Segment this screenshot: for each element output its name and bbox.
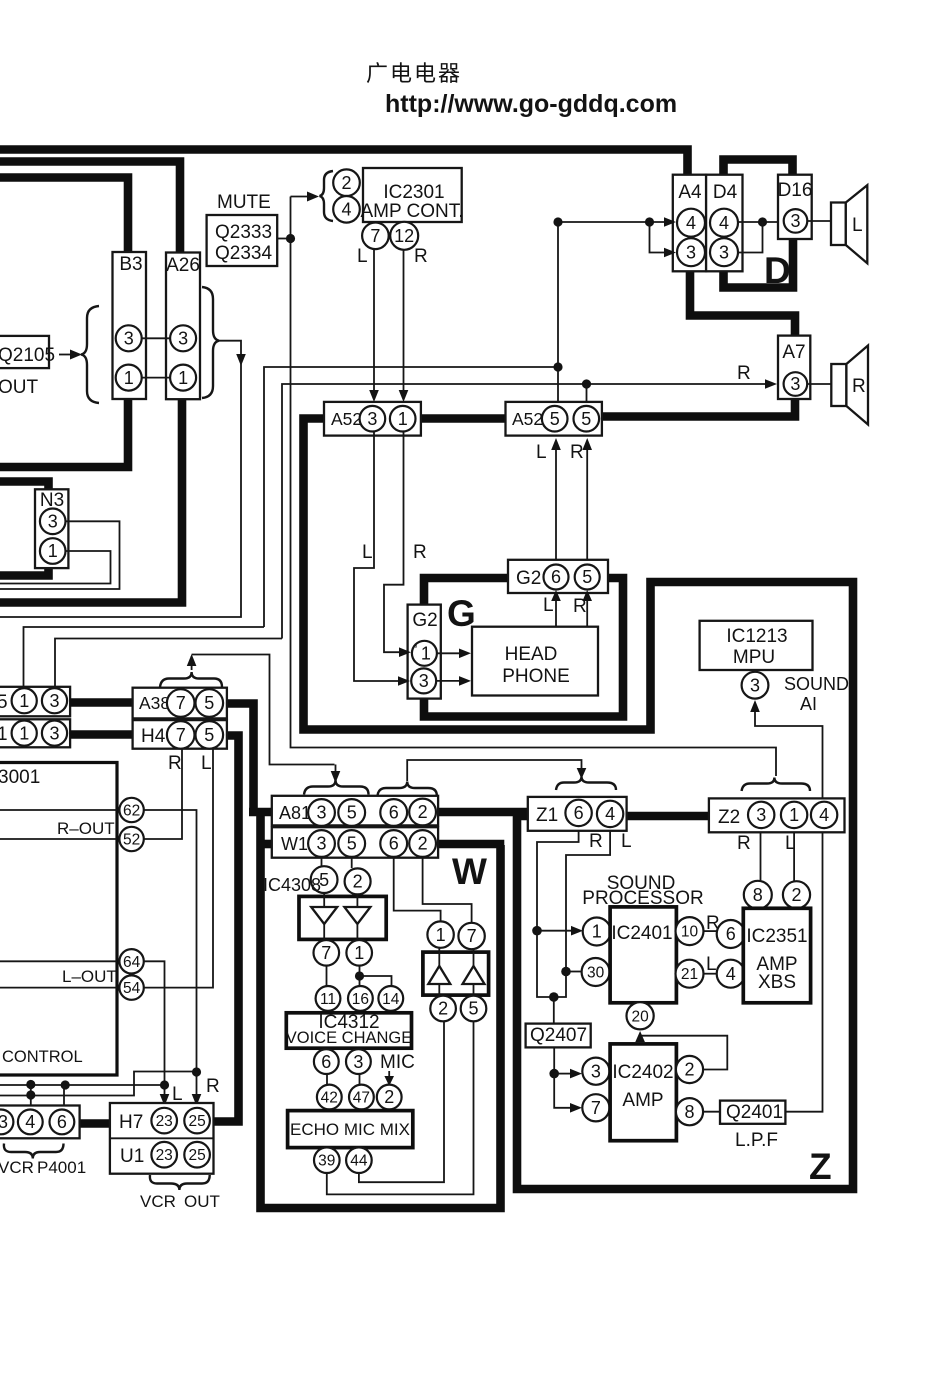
- wire IC2301-7 to A52 pin3: [369, 250, 379, 403]
- svg-text:4: 4: [819, 805, 829, 825]
- pin ampW-1: [427, 921, 453, 947]
- svg-text:G2: G2: [412, 610, 437, 631]
- wire L bus to left connector row1 pin1: [24, 627, 265, 687]
- svg-text:L: L: [357, 246, 368, 267]
- svg-text:8: 8: [684, 1102, 694, 1122]
- svg-text:3: 3: [316, 803, 326, 823]
- connector Z2: [709, 798, 845, 832]
- svg-text:AMP: AMP: [622, 1090, 663, 1111]
- svg-text:R: R: [168, 753, 182, 774]
- svg-text:IC4308: IC4308: [263, 875, 321, 895]
- svg-text:L: L: [621, 831, 632, 852]
- connector row A1: [0, 719, 70, 747]
- svg-text:4: 4: [719, 213, 729, 233]
- svg-text:23: 23: [156, 1113, 173, 1130]
- svg-text:2: 2: [418, 834, 428, 854]
- pin VCR-4: [18, 1110, 43, 1135]
- pin IC4308-1: [346, 940, 372, 966]
- wire arrow down into A81 brace: [331, 765, 341, 784]
- wire ECHO-39 to ampW-5: [327, 1022, 474, 1194]
- pin U1-23: [151, 1142, 177, 1168]
- block IC1213 MPU: [700, 621, 813, 670]
- svg-text:Z2: Z2: [718, 807, 740, 828]
- label L under Z2: [785, 833, 796, 854]
- wire Q2407 to IC2402 junction: [553, 1047, 555, 1073]
- svg-text:4: 4: [726, 964, 736, 984]
- op-amp block IC2301 AMP CONT.: [360, 168, 463, 222]
- box Q2105: [0, 336, 55, 368]
- wire pin54 to H4-5 (L): [144, 749, 213, 988]
- amp triangle left (up): [428, 948, 450, 996]
- wire down to VCR pin6: [63, 1085, 65, 1110]
- connector B3: [113, 252, 147, 399]
- svg-text:SOUND: SOUND: [784, 674, 849, 694]
- pin IC2401-30: [582, 958, 610, 986]
- wire into IC2401-30: [566, 971, 582, 973]
- svg-text:10: 10: [681, 924, 699, 941]
- wire Q2407 line down: [553, 997, 555, 1024]
- label R near A7: [737, 363, 751, 384]
- pin IC2301-12: [390, 222, 418, 250]
- wire thick row1 to A38: [70, 698, 133, 707]
- pin A38-7: [167, 689, 195, 717]
- connector A7: [778, 336, 810, 399]
- svg-text:21: 21: [681, 966, 698, 983]
- node junction 62-line: [192, 1067, 201, 1076]
- label R between 10 and 6: [706, 913, 720, 934]
- wire L line (IC2301 L to A4 riser and bus): [264, 367, 558, 627]
- svg-text:5: 5: [468, 999, 478, 1019]
- pin IC1213-3: [742, 672, 769, 699]
- pin A52R-5L: [542, 406, 568, 432]
- svg-text:5: 5: [204, 725, 214, 745]
- node junction IC2402-3: [549, 1069, 559, 1079]
- wire branch to IC4312-14: [360, 976, 392, 986]
- connector H7/U1 box: [110, 1103, 214, 1174]
- buffer triangle left in IC4308: [311, 893, 337, 940]
- wire thick cable to A26 top riser: [0, 162, 180, 254]
- svg-text:1: 1: [0, 724, 8, 745]
- svg-text:A26: A26: [166, 255, 200, 276]
- svg-text:L: L: [706, 954, 717, 975]
- svg-text:R: R: [206, 1076, 220, 1097]
- svg-text:7: 7: [176, 693, 186, 713]
- wire A26 brace to down bus: [219, 341, 246, 366]
- node bus dot row1: [26, 1080, 35, 1089]
- node junction D4 side: [758, 217, 767, 226]
- wire 21 to 4: [704, 973, 718, 975]
- block ECHO MIC MIX: [288, 1111, 413, 1148]
- svg-text:http://www.go-gddq.com: http://www.go-gddq.com: [385, 90, 677, 118]
- label IC4308: [263, 875, 321, 895]
- svg-text:2: 2: [438, 999, 448, 1019]
- svg-text:3: 3: [48, 512, 58, 532]
- block IC2402 AMP: [610, 1044, 676, 1141]
- wire thick W1 right to W box right edge: [438, 840, 504, 849]
- svg-text:3: 3: [790, 211, 800, 231]
- svg-text:A52: A52: [331, 409, 362, 429]
- pin IC2351-4: [717, 960, 745, 988]
- pin row2-3: [42, 721, 67, 746]
- svg-text:R: R: [413, 542, 427, 563]
- label MIC: [380, 1052, 415, 1073]
- wire N3-3 to left edge bus: [0, 521, 120, 589]
- svg-text:L: L: [543, 595, 554, 616]
- svg-text:D4: D4: [713, 182, 738, 203]
- pin VCR-3: [0, 1110, 13, 1135]
- brace over A81 6,2: [378, 782, 437, 796]
- pin W1-5: [338, 830, 365, 857]
- pin row1-1: [12, 688, 37, 713]
- wire A38 brace up-arrow to A81 feed: [187, 654, 335, 765]
- wire arrow into IC2401-1: [537, 926, 583, 936]
- svg-text:A38: A38: [139, 693, 170, 713]
- wire A26-brace bus down to left edge (y617): [0, 360, 241, 617]
- node junction IC2401-30: [561, 967, 571, 977]
- svg-text:Q2401: Q2401: [726, 1102, 783, 1123]
- svg-text:25: 25: [188, 1147, 205, 1164]
- wire Q2401 to Z2-4: [785, 833, 822, 1112]
- label OUT: [0, 377, 39, 398]
- wire R junction down to A52R-5R: [586, 384, 588, 402]
- svg-text:6: 6: [574, 803, 584, 823]
- wire arrow into IC2402-3: [554, 1069, 582, 1079]
- wire pin62 down to H7-25: [144, 810, 197, 1072]
- svg-text:4: 4: [686, 213, 696, 233]
- label L under H4-5: [201, 753, 212, 774]
- svg-text:4: 4: [341, 200, 351, 220]
- svg-text:P4001: P4001: [37, 1158, 86, 1177]
- brace under U1 pins: [150, 1175, 210, 1190]
- svg-text:4: 4: [25, 1112, 35, 1132]
- svg-text:5: 5: [581, 409, 591, 429]
- pin A52R-5R: [574, 406, 600, 432]
- pin row line 52: [0, 838, 117, 840]
- svg-text:5: 5: [582, 567, 592, 587]
- svg-text:W: W: [452, 851, 487, 892]
- svg-text:25: 25: [188, 1113, 205, 1130]
- wire thick cable to B3 top riser (tuner box top edge): [0, 178, 128, 254]
- label R under H4-7: [168, 753, 182, 774]
- pin H7-25: [184, 1108, 210, 1134]
- pin 64: [119, 949, 143, 973]
- label SOUND AI: [784, 674, 849, 714]
- svg-text:MIC: MIC: [380, 1052, 415, 1073]
- wire thick N3 top feed: [0, 482, 49, 491]
- node junction 64-line: [160, 1080, 169, 1089]
- wire R line (to A7): [282, 379, 777, 638]
- svg-text:3: 3: [750, 675, 760, 695]
- wire IC2402-8 to Q2401: [703, 1111, 720, 1113]
- svg-text:7: 7: [176, 725, 186, 745]
- label R under G2h: [573, 596, 587, 617]
- pin G2v-3: [411, 668, 436, 693]
- svg-text:20: 20: [631, 1008, 649, 1025]
- wire R bus to left connector row1 pin3: [55, 639, 282, 688]
- svg-text:A81: A81: [279, 803, 311, 823]
- label R under Z1: [589, 831, 603, 852]
- svg-text:2: 2: [791, 885, 801, 905]
- wire Z2-4 to IC1213-3: [750, 700, 822, 798]
- pin IC2401-1: [583, 918, 611, 946]
- pin N3-3: [40, 509, 66, 535]
- pin 54: [119, 975, 143, 999]
- svg-text:W1: W1: [281, 834, 308, 854]
- label L under pin7: [357, 246, 368, 267]
- pin IC2301-2: [333, 169, 360, 196]
- svg-text:12: 12: [394, 226, 414, 246]
- wire Q2105 arrow to brace: [59, 350, 82, 360]
- wire Z2-3 to IC2351-8: [760, 833, 762, 882]
- wire thick W1 left stub: [258, 840, 272, 849]
- svg-text:6: 6: [389, 834, 399, 854]
- wire IC2301-12 to A52 pin1: [399, 250, 409, 403]
- wire down and arrow into IC2402-7: [554, 1074, 582, 1113]
- node bus dot row2: [26, 1090, 35, 1099]
- label CONTROL: [2, 1048, 83, 1066]
- label W bold: [452, 851, 487, 892]
- svg-text:2: 2: [384, 1087, 394, 1107]
- connector G2 horizontal: [508, 560, 608, 593]
- wire thick D4 bottom to D16 bottom: [724, 239, 794, 288]
- box Q2333 Q2334: [207, 215, 278, 266]
- block IC2351 AMP XBS: [743, 908, 810, 1003]
- wire thick A81 to Z1: [437, 808, 529, 817]
- block HEAD PHONE: [472, 627, 598, 696]
- wire MIC arrow to pin2: [384, 1071, 394, 1086]
- pin A26-1: [170, 365, 196, 391]
- pin VCR-6: [50, 1110, 75, 1135]
- node junction IC2401-1: [532, 926, 542, 936]
- svg-text:3: 3: [419, 671, 429, 691]
- svg-text:3: 3: [719, 242, 729, 262]
- label L.P.F: [735, 1130, 778, 1151]
- pin IC2351-8: [744, 881, 772, 909]
- pin A81-6: [380, 799, 407, 826]
- svg-text:3: 3: [756, 805, 766, 825]
- svg-text:5: 5: [347, 834, 357, 854]
- svg-text:OUT: OUT: [184, 1192, 220, 1211]
- svg-text:52: 52: [123, 832, 140, 849]
- pin 62: [119, 798, 143, 822]
- transistor Q2407: [526, 1024, 591, 1048]
- pin A52L-1: [390, 406, 416, 432]
- pin A81-5: [338, 799, 365, 826]
- wire D4-4 to D16: [739, 221, 779, 223]
- svg-text:1: 1: [124, 368, 134, 388]
- pin IC4308-7: [314, 940, 340, 966]
- wire VCR bus lower: [0, 1072, 194, 1096]
- svg-text:62: 62: [123, 803, 140, 820]
- wire IC4308-1 to IC4312-16: [359, 966, 361, 986]
- svg-text:5: 5: [550, 409, 560, 429]
- pin W1-2: [409, 830, 436, 857]
- svg-text:IC1213: IC1213: [726, 626, 787, 647]
- svg-text:A52: A52: [512, 409, 543, 429]
- svg-text:5: 5: [347, 803, 357, 823]
- label R under A52R: [570, 442, 584, 463]
- brace under VCR connector: [4, 1144, 64, 1159]
- wire mute vertical line to Z braces feed: [291, 197, 777, 777]
- svg-text:47: 47: [353, 1090, 370, 1107]
- connector A4: [673, 175, 706, 272]
- wire A52L-3 L to G2v-3: [354, 432, 410, 686]
- svg-text:IC2351: IC2351: [746, 926, 807, 947]
- pin A7-3: [784, 372, 808, 396]
- block 3001 outline: [0, 763, 117, 1076]
- svg-text:8: 8: [753, 885, 763, 905]
- svg-text:R: R: [852, 376, 866, 397]
- svg-text:30: 30: [587, 965, 605, 982]
- pin G2h-6: [544, 565, 569, 590]
- wire pin52 to H4-7 (R): [144, 749, 182, 839]
- wire W1-6 to ampW-1: [394, 858, 441, 921]
- wire G2v-1 to headphone: [437, 649, 471, 659]
- connector A52 right: [506, 402, 602, 436]
- filter Q2401 L.P.F: [720, 1101, 785, 1124]
- wire branch to A4-3: [650, 222, 677, 257]
- svg-text:G2: G2: [516, 568, 541, 589]
- wire G2v-3 to headphone: [437, 676, 472, 686]
- wire thick A38 to A81 riser: [227, 704, 254, 813]
- connector W1: [272, 827, 438, 858]
- pin G2v-1: [412, 641, 437, 666]
- pin Z1-6: [565, 800, 591, 826]
- svg-text:IC2301: IC2301: [383, 182, 444, 203]
- pin row line 54: [0, 987, 117, 989]
- wire Z2-1 to IC2351-2: [793, 833, 795, 882]
- svg-text:6: 6: [57, 1112, 67, 1132]
- svg-text:5: 5: [0, 692, 8, 713]
- pin A4-4: [677, 209, 705, 237]
- wire VCR bus upper: [0, 1084, 165, 1086]
- wire Q2333 to mute line: [278, 238, 288, 240]
- label MUTE: [217, 192, 271, 213]
- pin ampW-5: [461, 996, 487, 1022]
- pin row line 62: [0, 809, 117, 811]
- svg-text:42: 42: [321, 1090, 338, 1107]
- pin IC2401-20: [627, 1002, 654, 1029]
- svg-text:16: 16: [352, 991, 369, 1008]
- svg-text:4: 4: [605, 804, 615, 824]
- wire thick A7 bottom to A52 right connector: [600, 399, 795, 417]
- svg-text:D: D: [764, 250, 791, 291]
- pin IC2402-7: [582, 1094, 609, 1121]
- wire IC2402-2 loop up to pin 20: [635, 1031, 727, 1070]
- brace over Z2: [742, 778, 810, 792]
- svg-text:R: R: [414, 246, 428, 267]
- wire Z1-4 down to IC2401-30 junction: [566, 831, 610, 972]
- connector A52 left: [324, 402, 421, 436]
- pin A4-3: [677, 238, 705, 266]
- svg-text:VCR: VCR: [140, 1192, 176, 1211]
- svg-text:L: L: [362, 542, 373, 563]
- connector G2 vertical: [408, 605, 441, 699]
- svg-text:H7: H7: [119, 1112, 143, 1133]
- svg-text:R–OUT: R–OUT: [57, 819, 115, 838]
- svg-text:MPU: MPU: [733, 647, 775, 668]
- wire ECHO-44 to ampW-2: [359, 1022, 444, 1182]
- pin N3-1: [40, 538, 66, 564]
- pin G2h-5: [575, 565, 600, 590]
- speaker L: [831, 185, 867, 263]
- svg-text:Z: Z: [809, 1146, 832, 1187]
- node bus dot pin6: [61, 1080, 70, 1089]
- pin IC4312-14: [378, 986, 403, 1011]
- label R-OUT: [57, 819, 115, 838]
- pin IC4308-5: [311, 866, 338, 893]
- svg-text:VCR: VCR: [0, 1158, 34, 1177]
- connector VCR P4001: [0, 1106, 80, 1139]
- node L junction: [553, 362, 562, 371]
- pin D16-3: [784, 209, 808, 233]
- block IC4308 amps: [299, 896, 386, 939]
- svg-text:7: 7: [467, 926, 477, 946]
- svg-text:OUT: OUT: [0, 377, 39, 398]
- wire headphone up to G2h-5: [582, 590, 592, 626]
- wire thick A81 stub: [249, 808, 272, 817]
- label L between 21 and 4: [706, 954, 717, 975]
- svg-text:7: 7: [321, 943, 331, 963]
- svg-text:Q2407: Q2407: [530, 1025, 587, 1046]
- pin row line 64: [0, 960, 117, 962]
- block W amp box: [423, 952, 489, 995]
- svg-text:A4: A4: [678, 182, 702, 203]
- wire thick Z1 to Z2: [626, 812, 711, 821]
- title chinese text: [366, 61, 462, 86]
- svg-text:64: 64: [123, 954, 141, 971]
- brace over A38 pins: [160, 672, 222, 687]
- svg-text:Q2334: Q2334: [215, 243, 272, 264]
- svg-text:ECHO MIC MIX: ECHO MIC MIX: [290, 1120, 410, 1139]
- svg-text:H4: H4: [141, 726, 166, 747]
- pin W1-3: [308, 830, 335, 857]
- svg-text:2: 2: [684, 1060, 694, 1080]
- label L on headphone L wire: [362, 542, 373, 563]
- wire down to VCR pin4: [30, 1085, 32, 1111]
- svg-text:7: 7: [370, 226, 380, 246]
- wire thick row2 to H4: [70, 730, 133, 739]
- brace IC2301 pins 2,4: [320, 171, 334, 221]
- svg-text:1: 1: [19, 691, 29, 711]
- pin IC2401-10: [676, 917, 704, 945]
- svg-text:2: 2: [418, 802, 428, 822]
- wire L junction down to A52R-5L: [557, 367, 559, 402]
- svg-text:1: 1: [354, 943, 364, 963]
- svg-text:1: 1: [789, 805, 799, 825]
- pin IC4312-6: [314, 1049, 339, 1074]
- pin A52L-3: [360, 406, 386, 432]
- buffer triangle right in IC4308: [344, 895, 370, 941]
- connector A26: [166, 253, 200, 400]
- pin B3-1: [116, 365, 142, 391]
- svg-text:L–OUT: L–OUT: [62, 967, 117, 986]
- pin D4-4: [710, 209, 738, 237]
- brace left of B3/A26: [81, 306, 99, 403]
- pin Z2-4: [811, 802, 837, 828]
- connector H4: [133, 720, 227, 749]
- label Z bold: [809, 1146, 832, 1187]
- pin row1-3: [42, 688, 67, 713]
- pin row2-1: [12, 721, 37, 746]
- svg-text:广电电器: 广电电器: [366, 61, 462, 86]
- svg-text:L: L: [536, 442, 547, 463]
- wire thick A26 bottom riser to left edge: [0, 399, 182, 603]
- wire thick A4 bottom to A7 top: [690, 271, 795, 337]
- wire 64 junction arrow into H7-23: [160, 1085, 170, 1106]
- wire L feed to A4-4: [558, 217, 676, 227]
- block IC4312 VOICE CHANGE: [286, 1012, 413, 1048]
